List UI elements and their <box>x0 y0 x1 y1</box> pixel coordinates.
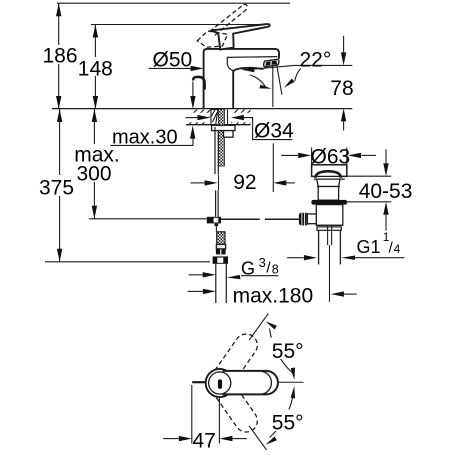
faucet cap seam <box>227 56 278 59</box>
svg-text:Ø34: Ø34 <box>254 119 294 142</box>
top view inner circle <box>209 372 231 394</box>
dimension G3/8 left arrow <box>189 274 203 276</box>
threaded stud <box>218 109 224 166</box>
dimension max.300 arrow up <box>92 109 97 122</box>
lever handle raised (dashed) base <box>197 31 227 47</box>
drain lower body <box>316 205 343 226</box>
dimension 186 arrow up <box>56 3 61 16</box>
faucet body right edge <box>233 68 263 109</box>
supply hose lower <box>218 175 220 191</box>
dimension Ø63 left arrow <box>281 154 298 156</box>
dimension Ø34 right arrow and label bracket <box>231 113 251 123</box>
dimension Ø63 right arrow <box>361 154 376 156</box>
drain tailpipe inner tube <box>328 225 332 245</box>
dimension max.300 arrow down <box>92 206 97 219</box>
deck bottom line <box>186 124 251 126</box>
faucet body outline <box>204 49 280 109</box>
top view handle fill <box>222 371 278 395</box>
dimension 148 arrow up <box>93 25 98 38</box>
drain rubber gasket <box>311 200 347 205</box>
top view dashed lever down <box>204 367 262 436</box>
hose end thread <box>217 232 225 245</box>
dimension 92 right arrow <box>286 182 295 184</box>
dimension 186 arrow down <box>56 96 61 109</box>
aerator insert right <box>272 61 276 64</box>
extension line max.300 bottom <box>89 218 207 220</box>
top view outer circle <box>206 369 234 397</box>
dimension G1 1/4 leader <box>355 257 404 259</box>
hole gap line right of stud <box>227 110 229 125</box>
deck hatching right <box>231 109 251 124</box>
dimension Ø63 extension lines <box>312 148 347 165</box>
dimension 148 line <box>94 25 96 110</box>
drain flange underside band <box>314 176 345 179</box>
svg-text:8: 8 <box>272 263 279 277</box>
deck hatching left <box>186 110 210 128</box>
dimension 47 left arrow <box>163 438 179 440</box>
dimension Ø34 left arrow <box>185 113 210 123</box>
55 deg upper leg line <box>249 314 268 340</box>
drain upper body <box>318 187 338 201</box>
max.30 upper arrowhead <box>190 96 195 109</box>
drain locknut <box>317 227 341 230</box>
aerator insert left <box>266 62 270 65</box>
aerator axis vertical line <box>272 66 274 107</box>
dimension 92 extension line (aerator axis) <box>272 143 274 192</box>
dimension 47 extension lines <box>192 385 220 444</box>
dimension 375 arrow down <box>57 249 62 262</box>
svg-text:G1: G1 <box>357 237 381 257</box>
dimension 375 text <box>38 175 75 196</box>
55 deg upper arc <box>270 329 294 375</box>
dimension 78 lower arrow <box>343 121 345 130</box>
rod coupling block <box>207 217 221 224</box>
svg-text:55°: 55° <box>272 340 304 363</box>
dimension max.300 text <box>71 144 123 182</box>
svg-text:40-53: 40-53 <box>359 180 413 203</box>
dimension 375 line <box>59 109 61 262</box>
aerator outline <box>264 59 279 67</box>
drain body bottom seam <box>316 224 343 226</box>
svg-text:4: 4 <box>394 242 401 256</box>
extension line lever top <box>91 24 268 26</box>
dimension 92 left arrow <box>191 182 205 184</box>
drain centerline lower <box>329 245 331 302</box>
drain tailpipe <box>319 230 341 264</box>
svg-text:Ø50: Ø50 <box>153 49 193 72</box>
cone washer wedge <box>211 109 218 124</box>
dimension 40-53 upper <box>347 175 392 177</box>
lever pivot line <box>211 31 218 33</box>
drain neck taper <box>317 179 340 186</box>
svg-text:G: G <box>241 258 255 278</box>
mounting washer <box>212 125 235 130</box>
svg-text:148: 148 <box>78 58 113 81</box>
dimension G1 1/4 left arrow <box>287 257 303 259</box>
pop-up drain rod <box>221 218 299 220</box>
aerator tilted axis line <box>276 61 282 94</box>
top view back tab <box>192 381 205 383</box>
lever handle raised (dashed) blade <box>210 4 248 35</box>
dimension Ø50 leader <box>149 67 191 69</box>
spout lip tick <box>227 58 233 71</box>
dimension 47 right arrow <box>232 438 246 440</box>
lever handle (solid) <box>211 24 270 50</box>
back tab (hook) on body <box>193 77 205 90</box>
55 deg lower leg line <box>249 426 266 450</box>
top view lever mark <box>218 379 222 388</box>
hose below coupling <box>215 223 219 226</box>
svg-text:3: 3 <box>259 255 266 270</box>
dimension G3/8 leader <box>241 275 278 277</box>
supply pipe G3/8 <box>216 264 227 303</box>
top view dashed lever up <box>204 330 262 399</box>
drain rod knob <box>299 213 309 226</box>
drain flange cylinder <box>312 165 347 177</box>
top view handle outline <box>223 371 278 395</box>
drain plug dome <box>315 171 341 178</box>
mounting nut step <box>224 131 234 138</box>
svg-text:55°: 55° <box>272 411 304 434</box>
svg-text:max.180: max.180 <box>233 285 314 308</box>
top view handle inner cap arc <box>261 371 271 394</box>
svg-text:92: 92 <box>233 171 256 194</box>
svg-text:186: 186 <box>42 45 77 68</box>
dimension max.300 line <box>93 109 95 219</box>
top view centerline <box>193 381 304 383</box>
extension line hose end (375 bottom) <box>45 261 210 263</box>
55 deg lower text <box>271 410 308 432</box>
svg-text:78: 78 <box>330 77 353 100</box>
dimension 148 arrow down <box>93 96 98 109</box>
svg-text:300: 300 <box>76 163 111 186</box>
dimension max.180 left arrow <box>188 290 203 292</box>
extension line deck surface <box>52 108 352 110</box>
dimension 148 text <box>78 57 113 76</box>
dimension 186 line <box>58 3 60 109</box>
dimension max.180 right arrow <box>344 293 357 295</box>
svg-text:375: 375 <box>39 177 74 200</box>
55 deg lower arc <box>270 392 294 438</box>
22 deg arc left <box>250 75 266 88</box>
dimension 78 upper arrow <box>343 36 345 53</box>
dimension 40-53 lower <box>342 201 391 203</box>
dimension 375 arrow up <box>57 109 62 122</box>
max.30 upper arrow line <box>192 82 194 97</box>
drain rod stem <box>307 214 316 224</box>
22 deg arc right <box>295 68 301 81</box>
dimension Ø50 arrowhead <box>191 66 204 71</box>
dimension 186 text <box>43 45 77 64</box>
dimension 22 deg leader <box>254 65 352 69</box>
max.30 lower arrow <box>192 139 194 146</box>
hose end nut <box>216 244 225 249</box>
55 deg upper text <box>271 338 308 360</box>
svg-text:22°: 22° <box>300 48 332 71</box>
supply hose upper <box>215 127 218 174</box>
svg-text:47: 47 <box>193 430 216 450</box>
extension line top (raised lever max height) <box>57 2 290 4</box>
